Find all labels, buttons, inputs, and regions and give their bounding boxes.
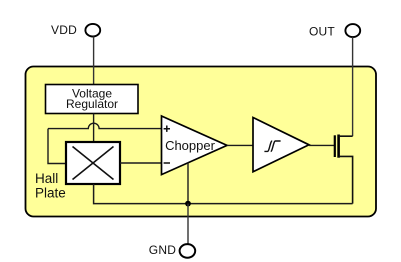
- wire chopper bottom to ground rail: [187, 163, 189, 204]
- svg-text:Plate: Plate: [35, 186, 66, 201]
- wire hall right to chopper -: [120, 162, 162, 164]
- wire left rail down to hall plate left: [48, 129, 66, 164]
- wire ground rail: [94, 184, 353, 204]
- svg-text:GND: GND: [149, 243, 176, 257]
- op-amp chopper A1: [162, 116, 228, 175]
- wire hall left to chopper + (with hop over regulator wire): [48, 123, 162, 128]
- label Hall Plate: [35, 171, 66, 201]
- svg-text:Hall: Hall: [35, 171, 58, 186]
- wire regulator to hall plate: [93, 114, 95, 143]
- schmitt trigger U2: [253, 118, 309, 172]
- svg-text:Chopper: Chopper: [165, 138, 216, 153]
- voltage regulator U1: [46, 85, 139, 114]
- terminal GND: [149, 243, 195, 258]
- IC body (yellow block): [26, 67, 377, 217]
- hall plate X1: [66, 142, 120, 184]
- svg-text:Regulator: Regulator: [66, 97, 118, 111]
- terminal OUT: [309, 24, 360, 38]
- svg-text:VDD: VDD: [51, 23, 77, 37]
- transistor Q1 (output MOSFET): [335, 135, 353, 204]
- terminal VDD: [51, 23, 100, 37]
- wire rail to GND terminal: [187, 204, 189, 245]
- svg-text:OUT: OUT: [309, 25, 335, 39]
- wire VDD to regulator: [93, 37, 95, 86]
- wire schmitt output to gate: [309, 144, 334, 146]
- wire chopper output to schmitt: [227, 144, 253, 146]
- junction dot: [185, 201, 191, 207]
- wire OUT drain riser: [352, 37, 354, 136]
